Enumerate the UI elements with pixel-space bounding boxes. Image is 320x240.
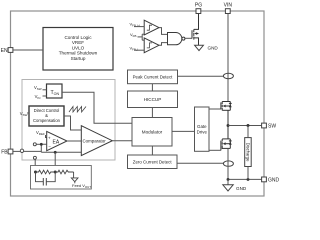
op-amp EA xyxy=(47,131,67,150)
ramp waveform symbol xyxy=(69,107,86,113)
pin GND xyxy=(262,177,267,182)
wire tap down to divider mid node xyxy=(54,152,56,172)
svg-text:−: − xyxy=(48,144,51,149)
inner control section box (gray) xyxy=(22,80,115,161)
wire comp lower to NAND xyxy=(159,43,168,46)
block Modulator xyxy=(132,118,172,147)
junction EA minus xyxy=(40,143,43,146)
svg-text:EA: EA xyxy=(53,139,60,145)
block HICCUP xyxy=(128,91,178,108)
node divider left xyxy=(34,171,37,174)
junction discharge bottom xyxy=(247,178,250,181)
svg-text:PG: PG xyxy=(195,3,202,9)
transistor HS (high-side NMOS) xyxy=(221,102,232,126)
svg-text:Comparator: Comparator xyxy=(83,139,107,144)
wire comp upper to NAND xyxy=(159,28,168,35)
block Control Logic xyxy=(43,28,113,71)
wire HICCUP to Modulator xyxy=(151,108,153,118)
svg-text:Peak Current Detect: Peak Current Detect xyxy=(133,75,174,80)
wire zero sense to gnd rail xyxy=(227,148,229,179)
svg-text:Drive: Drive xyxy=(197,129,208,134)
wire EA minus input xyxy=(41,144,46,152)
IC outline border xyxy=(11,11,265,196)
peak current sense element xyxy=(223,73,233,78)
resistor R2 xyxy=(55,170,73,174)
pin VIN xyxy=(225,9,230,14)
transistor LS (low-side NMOS) xyxy=(221,126,232,151)
terminal circle on FB line xyxy=(20,149,23,152)
svg-text:VIN: VIN xyxy=(224,3,233,9)
wire VFB_H to comparator xyxy=(134,26,144,28)
wire comparator output to Modulator xyxy=(112,140,132,142)
wire VIN to TON xyxy=(43,95,47,97)
wire gate drive to HS gate xyxy=(209,108,221,110)
svg-text:Discharge: Discharge xyxy=(246,143,251,163)
svg-text:Startup: Startup xyxy=(71,56,86,61)
block Discharge xyxy=(245,138,252,167)
wire Modulator to ZCD xyxy=(151,146,153,155)
wire EN to Control Logic xyxy=(13,49,43,51)
wire TON output to Modulator xyxy=(62,92,132,123)
wire ZCD to zero sense xyxy=(177,162,224,164)
junction gnd rail left xyxy=(227,178,230,181)
wire Modulator to Gate Drive xyxy=(172,130,195,132)
wire FB pin to junction xyxy=(13,150,20,152)
junction divider tap xyxy=(54,151,57,154)
block Zero Current Detect xyxy=(128,155,178,169)
comparator PG upper xyxy=(144,20,159,35)
svg-text:Modulator: Modulator xyxy=(142,130,163,135)
svg-text:+: + xyxy=(48,135,51,140)
junction discharge top xyxy=(247,124,250,127)
wire VIN pin down xyxy=(227,14,229,102)
block TON xyxy=(47,84,63,98)
gate NAND U1 xyxy=(168,33,182,45)
wire SW to discharge xyxy=(247,126,249,138)
wire GND rail xyxy=(228,178,262,180)
wire SW line xyxy=(228,125,262,127)
svg-text:Compensation: Compensation xyxy=(33,118,61,123)
svg-text:EN: EN xyxy=(1,48,8,54)
pin PG xyxy=(196,9,201,14)
wire VFB_L to comparator xyxy=(134,49,144,51)
wire VSW to Direct Control xyxy=(27,112,29,114)
wire circle down to divider left node xyxy=(34,159,36,172)
svg-text:GND: GND xyxy=(236,186,247,191)
comparator PG lower xyxy=(144,38,159,53)
block Peak Current Detect xyxy=(128,70,178,84)
zero current sense element xyxy=(223,161,233,166)
svg-text:FB: FB xyxy=(1,150,8,156)
wire VREF to EA + input xyxy=(46,135,47,138)
svg-text:GND: GND xyxy=(208,45,219,50)
wire PCD to HICCUP xyxy=(151,84,153,91)
terminal circle EA minus branch xyxy=(33,143,36,146)
wire EA output to Comparator xyxy=(67,140,81,142)
wire ramp (Direct Control to Comparator) xyxy=(64,116,81,130)
ground symbol (main) xyxy=(227,179,229,184)
block Direct Control & Compensation xyxy=(29,106,64,126)
wire discharge to gnd xyxy=(247,167,249,180)
svg-text:Gate: Gate xyxy=(197,124,207,129)
wire NAND to PG FET gate xyxy=(185,37,192,39)
block Gate Drive xyxy=(195,107,210,151)
pin FB xyxy=(8,149,13,154)
box Feed VOUT xyxy=(31,166,92,190)
wire VFB to both comparators (bracket) xyxy=(138,36,143,38)
node divider mid xyxy=(54,171,57,174)
wire circle to EA minus junction xyxy=(36,143,41,145)
resistor R1 xyxy=(36,170,56,174)
wire PCD to peak sense xyxy=(178,75,224,77)
svg-text:Zero Current Detect: Zero Current Detect xyxy=(133,160,173,165)
svg-text:GND: GND xyxy=(268,177,280,183)
node SW junction xyxy=(227,124,230,127)
capacitor C1 (parallel) xyxy=(36,172,44,182)
transistor PG (open drain) xyxy=(192,14,199,46)
terminal circle divider branch xyxy=(33,156,36,159)
pin EN xyxy=(8,48,13,53)
wire gate drive to LS gate xyxy=(209,149,221,151)
arrow to VOUT xyxy=(73,172,75,178)
pin SW xyxy=(262,123,267,128)
svg-text:HICCUP: HICCUP xyxy=(144,97,162,102)
svg-text:SW: SW xyxy=(268,124,276,130)
wire FB to comparator lower input xyxy=(41,151,81,153)
ground symbol PG xyxy=(195,45,204,50)
wire VSW to TON xyxy=(43,89,47,91)
comparator (main) xyxy=(81,126,112,156)
